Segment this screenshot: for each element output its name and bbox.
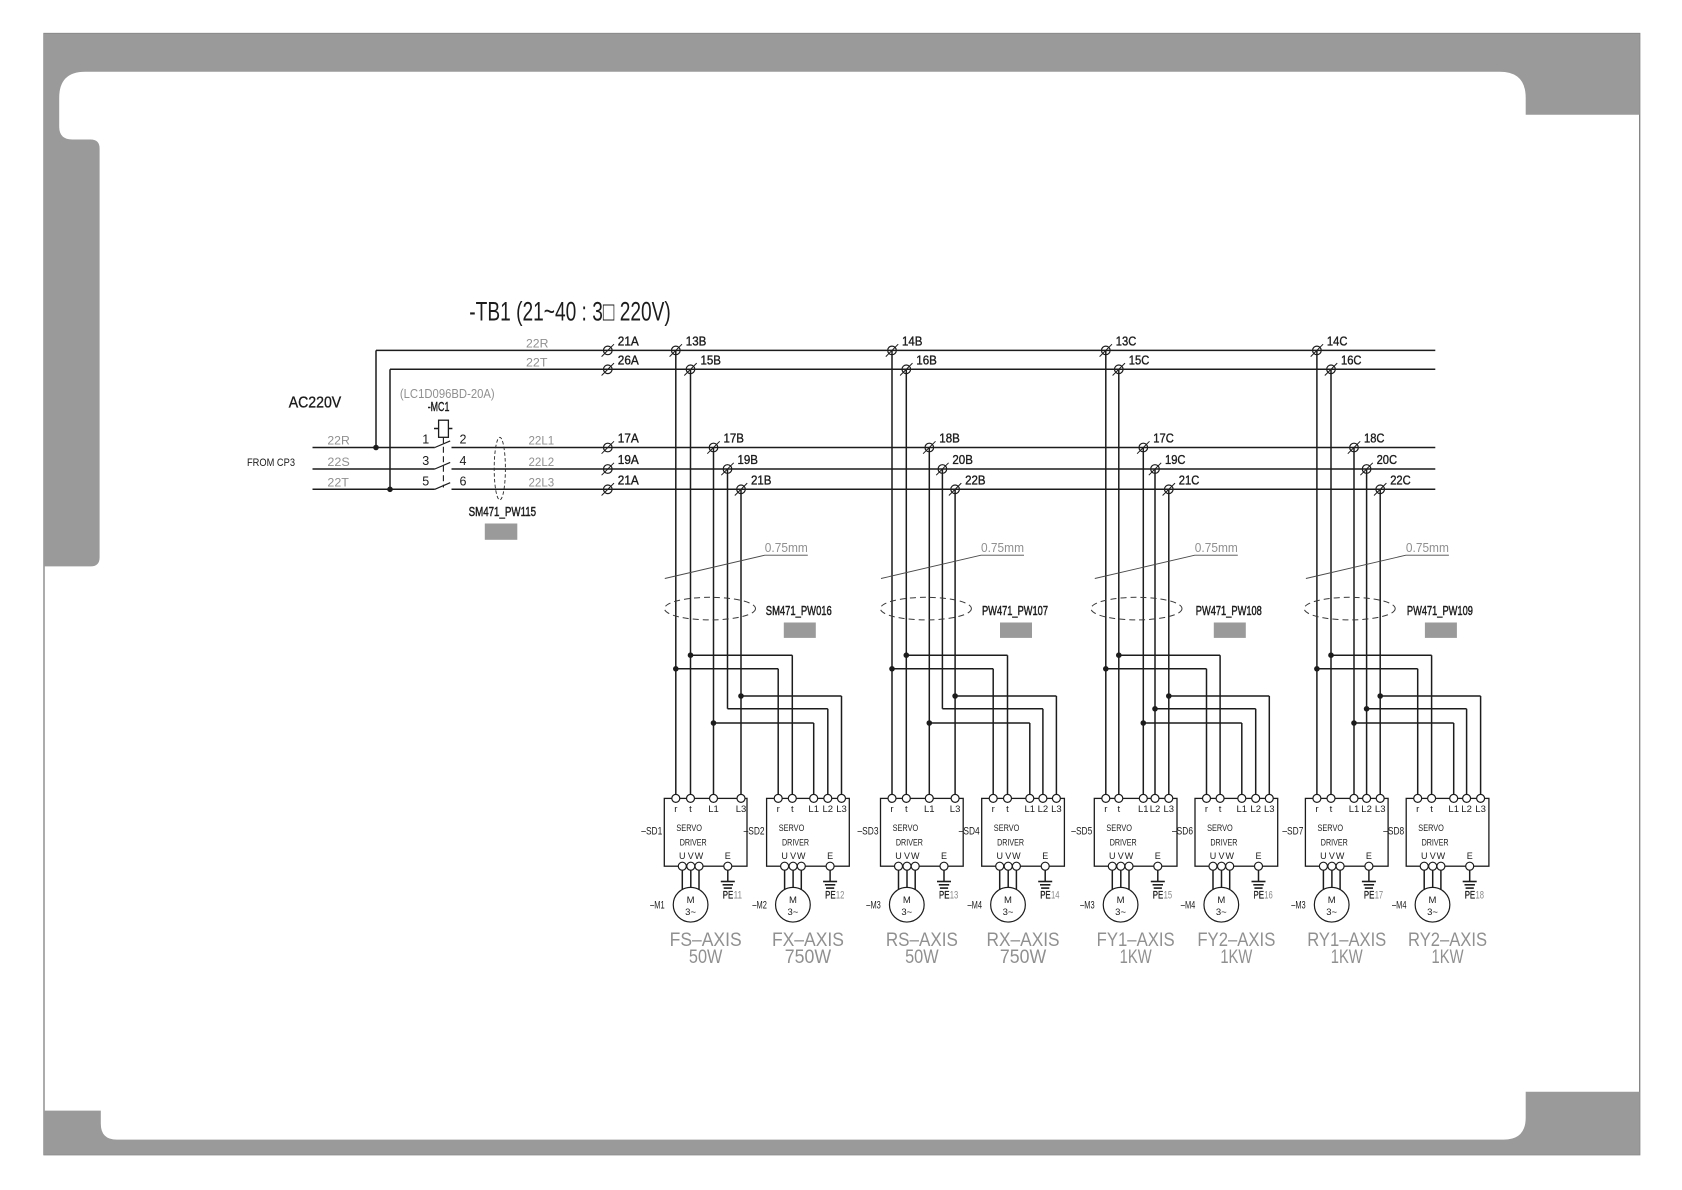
wire size leader line xyxy=(665,555,808,578)
wire 22L1 bus xyxy=(452,447,1436,449)
wire branch phase t to second driver xyxy=(691,655,793,798)
svg-text:W: W xyxy=(1336,851,1345,861)
pin W of SD2 xyxy=(797,851,806,870)
junction L1 branch xyxy=(927,720,933,726)
servo driver SD7 xyxy=(1305,798,1388,866)
pin U of SD4 xyxy=(996,851,1004,870)
svg-text:W: W xyxy=(695,851,704,861)
pin t of SD2 xyxy=(788,794,796,815)
svg-text:750W: 750W xyxy=(1000,947,1046,968)
svg-text:U: U xyxy=(781,851,788,861)
svg-text:DRIVER: DRIVER xyxy=(782,838,809,849)
svg-text:20B: 20B xyxy=(952,453,973,467)
wire E to ground xyxy=(1044,870,1046,881)
svg-text:V: V xyxy=(1430,851,1436,861)
svg-text:50W: 50W xyxy=(905,947,939,968)
wire size leader line xyxy=(1095,555,1238,578)
svg-text:15C: 15C xyxy=(1129,353,1150,367)
label PE14 xyxy=(1040,890,1059,902)
junction r branch xyxy=(1314,666,1320,672)
svg-text:DRIVER: DRIVER xyxy=(997,838,1024,849)
svg-text:-TB1 (21~40 : 3□ 220V): -TB1 (21~40 : 3□ 220V) xyxy=(469,297,671,327)
wire drop 18B to driver pin L1 xyxy=(928,448,930,799)
svg-text:E: E xyxy=(827,851,833,861)
terminal 21A xyxy=(602,483,614,495)
svg-text:-MC1: -MC1 xyxy=(428,400,450,414)
terminal 19B xyxy=(721,463,733,475)
svg-text:3~: 3~ xyxy=(1427,907,1438,918)
svg-text:L2: L2 xyxy=(1250,804,1261,815)
wire V to motor xyxy=(690,870,692,887)
wire drop 21B to driver pin L3 xyxy=(740,489,742,798)
pin L1 of SD3 xyxy=(924,794,935,815)
terminal 17A xyxy=(602,441,614,453)
wire W to motor xyxy=(1229,870,1231,890)
cable ellipse PW471_PW108 xyxy=(1091,597,1182,620)
junction t branch xyxy=(904,652,910,658)
cable tag color block xyxy=(1000,623,1032,638)
pin V of SD4 xyxy=(1004,851,1012,870)
pin L3 of SD3 xyxy=(950,794,961,815)
svg-text:L1: L1 xyxy=(924,804,935,815)
wire E to ground xyxy=(727,870,729,881)
svg-text:r: r xyxy=(1205,804,1208,815)
svg-text:L3: L3 xyxy=(836,804,847,815)
wire drop 19C to driver pin L2 xyxy=(1154,469,1156,798)
ground PE14 xyxy=(1038,882,1052,889)
pin t of SD8 xyxy=(1428,794,1436,815)
motor -M4 (FY2&#8211;AXIS) xyxy=(1204,887,1239,922)
svg-text:FROM CP3: FROM CP3 xyxy=(247,457,295,469)
wire branch phase L2 to second driver xyxy=(728,709,828,799)
ground PE11 xyxy=(721,882,735,889)
svg-text:3~: 3~ xyxy=(685,907,696,918)
wire drop 22C to driver pin L3 xyxy=(1379,489,1381,798)
svg-text:V: V xyxy=(1329,851,1335,861)
svg-text:L1: L1 xyxy=(1237,804,1248,815)
wire drop 18C to driver pin L1 xyxy=(1353,448,1355,799)
pin W of SD7 xyxy=(1336,851,1345,870)
label PE13 xyxy=(939,890,958,902)
servo driver SD6 xyxy=(1195,798,1278,866)
junction L1 branch xyxy=(1141,720,1147,726)
wire drop 15B to driver pin t xyxy=(690,369,692,798)
ground PE17 xyxy=(1362,882,1376,889)
svg-text:–SD1: –SD1 xyxy=(641,826,662,838)
motor -M4 (RY2&#8211;AXIS) xyxy=(1415,887,1450,922)
svg-text:3~: 3~ xyxy=(901,907,912,918)
svg-text:50W: 50W xyxy=(689,947,723,968)
pin L1 of SD1 xyxy=(708,794,719,815)
svg-text:W: W xyxy=(911,851,920,861)
pin W of SD3 xyxy=(911,851,920,870)
svg-text:5: 5 xyxy=(422,474,429,488)
svg-text:1KW: 1KW xyxy=(1120,947,1152,968)
svg-text:PE: PE xyxy=(1040,890,1051,902)
svg-text:0.75mm: 0.75mm xyxy=(765,541,808,555)
svg-text:19B: 19B xyxy=(738,453,759,467)
wire W to motor xyxy=(914,870,916,890)
pin t of SD4 xyxy=(1004,794,1012,815)
pin r of SD3 xyxy=(888,794,896,815)
svg-text:PW471_PW108: PW471_PW108 xyxy=(1196,604,1262,618)
svg-text:r: r xyxy=(1416,804,1419,815)
svg-text:U: U xyxy=(1210,851,1217,861)
servo driver SD3 xyxy=(881,798,964,866)
svg-text:DRIVER: DRIVER xyxy=(896,838,923,849)
svg-text:18B: 18B xyxy=(939,432,960,446)
pin r of SD4 xyxy=(989,794,997,815)
servo driver SD8 xyxy=(1406,798,1489,866)
pin U of SD2 xyxy=(781,851,789,870)
svg-text:L2: L2 xyxy=(1361,804,1372,815)
svg-text:L2: L2 xyxy=(1150,804,1161,815)
motor -M3 (FY1&#8211;AXIS) xyxy=(1103,887,1138,922)
svg-text:–M3: –M3 xyxy=(1080,900,1095,912)
svg-text:SERVO: SERVO xyxy=(676,823,702,834)
svg-text:22L3: 22L3 xyxy=(529,475,555,489)
wire size leader line xyxy=(1306,555,1449,578)
svg-text:21C: 21C xyxy=(1179,473,1200,487)
svg-text:DRIVER: DRIVER xyxy=(1110,838,1137,849)
pin L1 of SD5 xyxy=(1138,794,1149,815)
pin L1 of SD2 xyxy=(808,794,819,815)
terminal 16B xyxy=(900,363,912,375)
junction r branch xyxy=(889,666,895,672)
pin V of SD6 xyxy=(1218,851,1226,870)
svg-text:3: 3 xyxy=(422,454,429,468)
svg-text:PE: PE xyxy=(1254,890,1265,902)
svg-text:3~: 3~ xyxy=(1115,907,1126,918)
pin E of SD3 xyxy=(940,851,948,870)
cable ellipse SM471_PW115 xyxy=(494,437,505,500)
wire drop 19B (turns to second driver) xyxy=(727,469,729,709)
wire branch phase r to second driver xyxy=(676,669,778,799)
svg-text:13C: 13C xyxy=(1116,334,1137,348)
ground PE16 xyxy=(1252,882,1266,889)
pin t of SD6 xyxy=(1216,794,1224,815)
svg-text:–M4: –M4 xyxy=(968,900,983,912)
svg-text:PE: PE xyxy=(939,890,950,902)
svg-text:22C: 22C xyxy=(1390,473,1411,487)
wire drop 13B to driver pin r xyxy=(675,350,677,798)
svg-text:E: E xyxy=(1155,851,1161,861)
svg-text:r: r xyxy=(890,804,893,815)
svg-text:E: E xyxy=(1467,851,1473,861)
pin V of SD5 xyxy=(1117,851,1125,870)
junction r branch xyxy=(673,666,679,672)
svg-text:r: r xyxy=(777,804,780,815)
svg-text:M: M xyxy=(789,895,797,906)
svg-text:22L1: 22L1 xyxy=(529,434,555,448)
pin W of SD4 xyxy=(1012,851,1021,870)
svg-text:E: E xyxy=(725,851,731,861)
pin V of SD3 xyxy=(903,851,911,870)
wire branch phase L2 to second driver xyxy=(1367,709,1467,799)
svg-text:t: t xyxy=(791,804,794,815)
pin L1 of SD7 xyxy=(1349,794,1360,815)
pin U of SD3 xyxy=(895,851,903,870)
wire size leader line xyxy=(881,555,1024,578)
svg-text:L3: L3 xyxy=(950,804,961,815)
junction L3 branch xyxy=(1377,693,1383,699)
svg-text:19C: 19C xyxy=(1165,453,1186,467)
pin E of SD4 xyxy=(1041,851,1049,870)
svg-text:SERVO: SERVO xyxy=(1106,823,1132,834)
svg-text:–SD6: –SD6 xyxy=(1172,826,1193,838)
wire W to motor xyxy=(1440,870,1442,890)
svg-text:V: V xyxy=(1005,851,1011,861)
svg-text:–SD4: –SD4 xyxy=(959,826,980,838)
junction on 22T input xyxy=(387,487,393,493)
wire U to motor xyxy=(681,870,683,890)
terminal 22B xyxy=(949,483,961,495)
svg-text:L3: L3 xyxy=(1264,804,1275,815)
svg-text:L1: L1 xyxy=(1349,804,1360,815)
pin U of SD7 xyxy=(1319,851,1327,870)
wire V to motor xyxy=(1331,870,1333,887)
terminal 18C xyxy=(1348,441,1360,453)
svg-text:L3: L3 xyxy=(736,804,747,815)
pin W of SD1 xyxy=(695,851,704,870)
terminal 18B xyxy=(923,441,935,453)
svg-text:–M2: –M2 xyxy=(752,900,767,912)
terminal 13C xyxy=(1100,344,1112,356)
label PE12 xyxy=(825,890,844,902)
svg-text:W: W xyxy=(1012,851,1021,861)
svg-text:15B: 15B xyxy=(701,353,722,367)
svg-text:r: r xyxy=(674,804,677,815)
pin U of SD8 xyxy=(1420,851,1428,870)
svg-text:3~: 3~ xyxy=(1216,907,1227,918)
svg-text:16C: 16C xyxy=(1341,353,1362,367)
cable ellipse PW471_PW107 xyxy=(880,597,971,620)
svg-text:1KW: 1KW xyxy=(1220,947,1252,968)
svg-text:M: M xyxy=(687,895,695,906)
svg-text:SM471_PW115: SM471_PW115 xyxy=(469,505,537,519)
svg-text:SERVO: SERVO xyxy=(1318,823,1344,834)
svg-text:L1: L1 xyxy=(1025,804,1036,815)
svg-text:W: W xyxy=(1125,851,1134,861)
wire U to motor xyxy=(784,870,786,890)
wire 22L2 bus xyxy=(452,468,1436,470)
pin t of SD3 xyxy=(902,794,910,815)
servo driver SD5 xyxy=(1094,798,1177,866)
pin t of SD1 xyxy=(687,794,695,815)
wire V to motor xyxy=(1432,870,1434,887)
svg-text:22T: 22T xyxy=(526,355,548,369)
wire W to motor xyxy=(800,870,802,890)
svg-text:M: M xyxy=(1217,895,1225,906)
svg-text:M: M xyxy=(1328,895,1336,906)
pin L3 of SD4 xyxy=(1051,794,1062,815)
svg-text:18: 18 xyxy=(1476,890,1485,902)
terminal 20C xyxy=(1360,463,1372,475)
svg-text:–SD5: –SD5 xyxy=(1071,826,1092,838)
svg-text:17: 17 xyxy=(1375,890,1384,902)
junction t branch xyxy=(1328,652,1334,658)
wire branch phase L3 to second driver xyxy=(1380,696,1480,798)
wire branch phase L1 to second driver xyxy=(929,723,1030,798)
svg-text:AC220V: AC220V xyxy=(289,395,342,412)
wire E to ground xyxy=(829,870,831,881)
cable tag color block xyxy=(1214,623,1246,638)
pin r of SD7 xyxy=(1313,794,1321,815)
motor -M3 (RY1&#8211;AXIS) xyxy=(1314,887,1349,922)
svg-text:L2: L2 xyxy=(1038,804,1049,815)
wire U to motor xyxy=(1212,870,1214,890)
svg-text:U: U xyxy=(1320,851,1327,861)
wire W to motor xyxy=(1339,870,1341,890)
svg-text:–M4: –M4 xyxy=(1181,900,1196,912)
label PE17 xyxy=(1364,890,1383,902)
terminal 14C xyxy=(1311,344,1323,356)
terminal 13B xyxy=(670,344,682,356)
svg-text:M: M xyxy=(903,895,911,906)
svg-text:W: W xyxy=(1225,851,1234,861)
wire 22R input from CP3 xyxy=(313,447,435,449)
svg-text:t: t xyxy=(1330,804,1333,815)
terminal 19A xyxy=(602,463,614,475)
wire branch phase t to second driver xyxy=(1119,655,1220,798)
pin L2 of SD2 xyxy=(823,794,834,815)
junction L1 branch xyxy=(711,720,717,726)
wire U to motor xyxy=(1423,870,1425,890)
svg-text:750W: 750W xyxy=(785,947,831,968)
svg-text:0.75mm: 0.75mm xyxy=(1406,541,1449,555)
svg-text:SERVO: SERVO xyxy=(994,823,1020,834)
pin L3 of SD5 xyxy=(1164,794,1175,815)
terminal 17B xyxy=(707,441,719,453)
wire branch phase t to second driver xyxy=(1331,655,1432,798)
svg-text:22R: 22R xyxy=(327,434,350,448)
svg-text:22B: 22B xyxy=(965,473,986,487)
svg-text:M: M xyxy=(1004,895,1012,906)
svg-text:PE: PE xyxy=(1364,890,1375,902)
pin r of SD5 xyxy=(1102,794,1110,815)
wire branch phase L1 to second driver xyxy=(714,723,814,798)
wire E to ground xyxy=(1258,870,1260,881)
pin W of SD5 xyxy=(1125,851,1134,870)
wire V to motor xyxy=(906,870,908,887)
pin r of SD2 xyxy=(774,794,782,815)
junction L3 branch xyxy=(952,693,958,699)
svg-text:PE: PE xyxy=(723,890,734,902)
wire E to ground xyxy=(1469,870,1471,881)
servo driver SD2 xyxy=(767,798,850,866)
wire branch phase r to second driver xyxy=(1317,669,1418,799)
svg-text:22L2: 22L2 xyxy=(529,455,555,469)
label PE11 xyxy=(723,890,742,902)
pin L3 of SD1 xyxy=(736,794,747,815)
svg-text:21A: 21A xyxy=(618,334,640,348)
pin U of SD5 xyxy=(1108,851,1116,870)
wire W to motor xyxy=(1128,870,1130,890)
pin L1 of SD6 xyxy=(1237,794,1248,815)
pin t of SD7 xyxy=(1327,794,1335,815)
svg-text:17C: 17C xyxy=(1153,432,1174,446)
svg-text:–SD3: –SD3 xyxy=(858,826,879,838)
svg-text:4: 4 xyxy=(460,454,467,468)
terminal 20B xyxy=(936,463,948,475)
junction r branch xyxy=(1103,666,1109,672)
junction L2 branch xyxy=(1364,706,1370,712)
wire branch phase r to second driver xyxy=(1106,669,1207,799)
cable tag color block xyxy=(485,524,518,540)
ground PE15 xyxy=(1151,882,1165,889)
svg-text:–M1: –M1 xyxy=(650,900,665,912)
wire U to motor xyxy=(999,870,1001,890)
svg-text:L3: L3 xyxy=(1375,804,1386,815)
wire 22T riser to bus xyxy=(389,369,391,489)
svg-text:r: r xyxy=(1104,804,1107,815)
svg-text:–SD8: –SD8 xyxy=(1383,826,1404,838)
svg-text:–SD7: –SD7 xyxy=(1282,826,1303,838)
junction L1 branch xyxy=(1351,720,1357,726)
svg-text:V: V xyxy=(790,851,796,861)
svg-text:13B: 13B xyxy=(686,334,707,348)
junction on 22R input xyxy=(373,445,379,451)
svg-text:18C: 18C xyxy=(1364,432,1385,446)
svg-text:17B: 17B xyxy=(724,432,745,446)
svg-text:PE: PE xyxy=(1465,890,1476,902)
svg-text:PE: PE xyxy=(825,890,836,902)
svg-text:L1: L1 xyxy=(1138,804,1149,815)
svg-text:PW471_PW107: PW471_PW107 xyxy=(982,604,1048,618)
servo driver SD1 xyxy=(664,798,747,866)
svg-text:r: r xyxy=(1315,804,1318,815)
wire 22T bus xyxy=(390,368,1435,370)
pin L3 of SD2 xyxy=(836,794,847,815)
pin V of SD7 xyxy=(1328,851,1336,870)
ground PE18 xyxy=(1463,882,1477,889)
svg-text:12: 12 xyxy=(836,890,845,902)
svg-text:15: 15 xyxy=(1164,890,1173,902)
pin U of SD6 xyxy=(1209,851,1217,870)
terminal 15C xyxy=(1113,363,1125,375)
svg-text:t: t xyxy=(689,804,692,815)
svg-text:DRIVER: DRIVER xyxy=(1321,838,1348,849)
pin L1 of SD4 xyxy=(1025,794,1036,815)
contactor MC1 linkage (dashed) xyxy=(442,437,444,487)
svg-text:SERVO: SERVO xyxy=(893,823,919,834)
pin U of SD1 xyxy=(678,851,686,870)
svg-text:3~: 3~ xyxy=(787,907,798,918)
wire 22S input from CP3 xyxy=(313,468,435,470)
svg-text:14C: 14C xyxy=(1327,334,1348,348)
wire 22T input from CP3 xyxy=(313,488,435,490)
motor -M1 (FS&#8211;AXIS) xyxy=(673,887,708,922)
wire drop 21C to driver pin L3 xyxy=(1168,489,1170,798)
svg-text:V: V xyxy=(1118,851,1124,861)
wire drop 13C to driver pin r xyxy=(1105,350,1107,798)
cable ellipse PW471_PW109 xyxy=(1304,597,1395,620)
svg-text:1KW: 1KW xyxy=(1432,947,1464,968)
cable tag color block xyxy=(1425,623,1457,638)
wire drop 17C to driver pin L1 xyxy=(1142,448,1144,799)
svg-text:22T: 22T xyxy=(327,475,349,489)
ground PE12 xyxy=(823,882,837,889)
svg-text:t: t xyxy=(1006,804,1009,815)
terminal 15B xyxy=(684,363,696,375)
pin E of SD1 xyxy=(724,851,732,870)
svg-text:SM471_PW016: SM471_PW016 xyxy=(766,604,832,618)
wire W to motor xyxy=(698,870,700,890)
svg-text:DRIVER: DRIVER xyxy=(1422,838,1449,849)
svg-text:20C: 20C xyxy=(1377,453,1398,467)
motor -M4 (RX&#8211;AXIS) xyxy=(991,887,1026,922)
pin L2 of SD4 xyxy=(1038,794,1049,815)
